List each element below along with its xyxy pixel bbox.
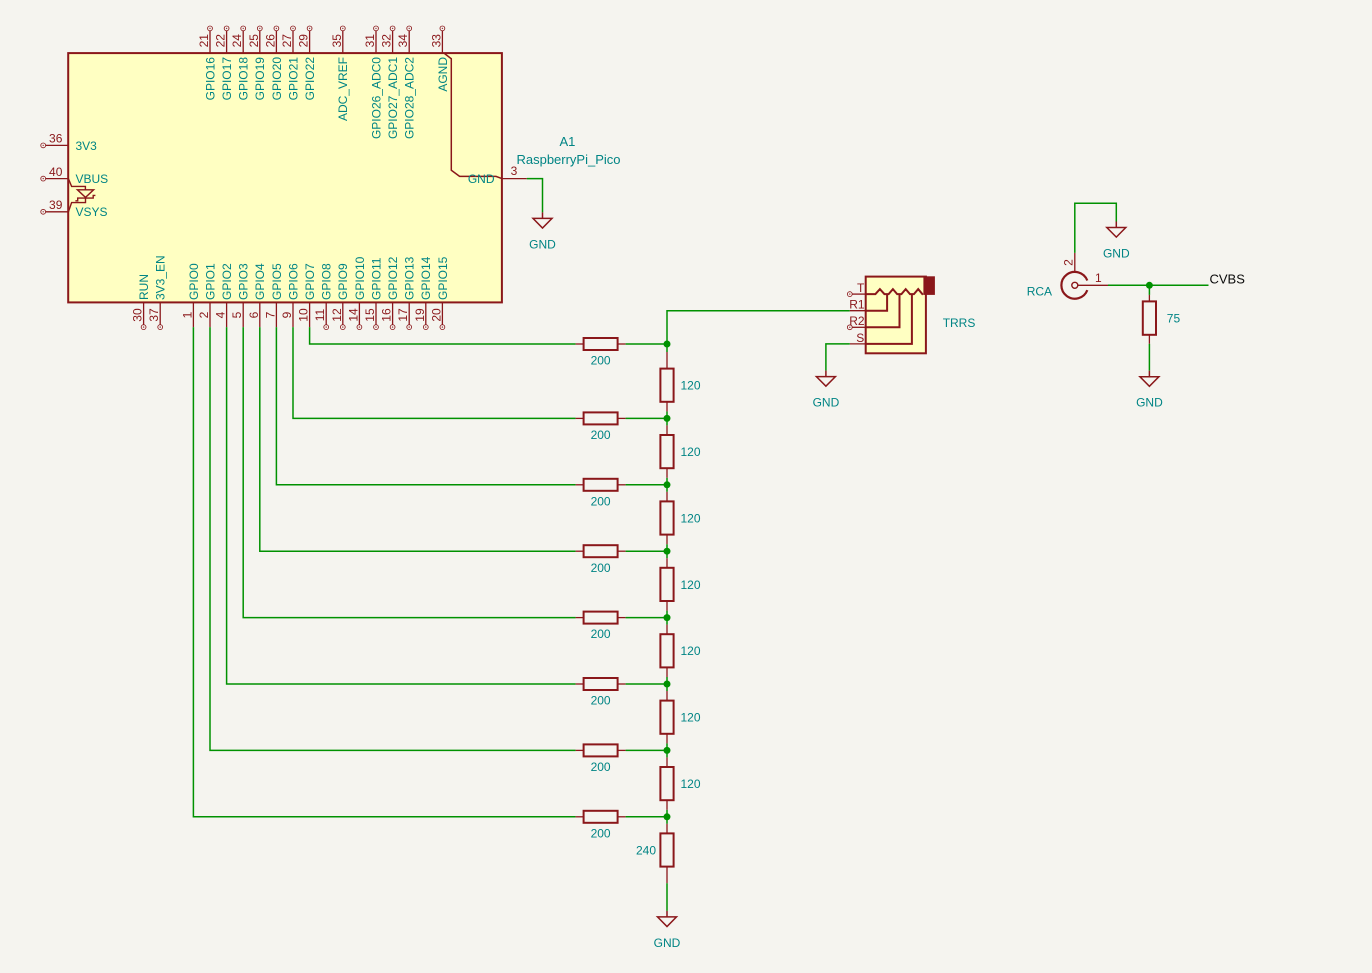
pin 26 GPIO20 (top) (263, 26, 283, 100)
svg-text:2: 2 (1062, 259, 1076, 266)
svg-text:34: 34 (396, 34, 410, 48)
junction ladder node 6 (664, 681, 671, 688)
resistor R 200 row4 (200) (576, 545, 626, 575)
TRRS R2 contact (866, 294, 900, 327)
RCA pin 1 signal (1078, 271, 1108, 285)
svg-text:5: 5 (230, 311, 244, 318)
svg-text:200: 200 (591, 354, 611, 368)
pin 24 GPIO18 (top) (230, 26, 250, 100)
wire RCA shield to GND (1075, 203, 1117, 253)
svg-text:GPIO16: GPIO16 (203, 57, 217, 101)
wire pico pin3 to GND (527, 179, 543, 213)
svg-text:GPIO22: GPIO22 (303, 57, 317, 101)
svg-text:GPIO11: GPIO11 (369, 257, 383, 300)
RCA pin 2 shield (1062, 253, 1076, 272)
svg-text:T: T (857, 281, 865, 295)
wire GPIO4 column to row 4 (260, 327, 576, 551)
TRRS sleeve block (923, 276, 935, 295)
svg-text:GPIO19: GPIO19 (253, 57, 267, 101)
svg-text:9: 9 (280, 311, 294, 318)
wire node1 to R120-1 (666, 344, 668, 352)
svg-text:12: 12 (330, 308, 344, 322)
svg-text:GPIO12: GPIO12 (386, 256, 400, 300)
A1 internal zener diode VBUS-VSYS (68, 179, 95, 212)
pin 31 GPIO26_ADC0 (top) (363, 26, 383, 139)
svg-text:GPIO15: GPIO15 (436, 256, 450, 300)
resistor R 200 row7 (200) (576, 744, 626, 774)
junction ladder node 7 (664, 747, 671, 754)
svg-text:GPIO20: GPIO20 (270, 57, 284, 101)
svg-text:GPIO7: GPIO7 (303, 263, 317, 300)
pin 34 GPIO28_ADC2 (top) (396, 26, 416, 139)
svg-text:RaspberryPi_Pico: RaspberryPi_Pico (516, 152, 620, 167)
wire TRRS S to GND (826, 344, 850, 371)
pin 21 GPIO16 (top) (197, 26, 217, 100)
svg-text:16: 16 (380, 308, 394, 322)
TRRS pin R2 (847, 314, 865, 329)
svg-text:VSYS: VSYS (76, 205, 108, 219)
MCU A1 RaspberryPi_Pico body (68, 53, 502, 302)
resistor R 200 row1 (200) (576, 338, 626, 368)
junction ladder node 1 (664, 341, 671, 348)
wire GPIO5 column to row 3 (276, 327, 575, 485)
svg-text:120: 120 (681, 711, 701, 725)
pin 22 GPIO17 (top) (214, 26, 234, 100)
svg-text:10: 10 (297, 308, 311, 322)
wire R240 to GND (666, 883, 668, 911)
resistor R 120 #1 (120) (660, 352, 700, 418)
svg-text:120: 120 (681, 578, 701, 592)
svg-text:GPIO10: GPIO10 (353, 256, 367, 300)
pin 9 GPIO6 (bottom) (280, 263, 300, 327)
svg-text:GPIO18: GPIO18 (237, 57, 251, 101)
svg-text:200: 200 (591, 561, 611, 575)
pin 17 GPIO13 (bottom) (396, 256, 416, 329)
pin 4 GPIO2 (bottom) (214, 263, 234, 327)
svg-text:37: 37 (147, 308, 161, 322)
pin 27 GPIO21 (top) (280, 26, 300, 100)
pin 15 GPIO11 (bottom) (363, 257, 383, 329)
wire GPIO2 column to row 6 (227, 327, 576, 684)
svg-text:200: 200 (591, 760, 611, 774)
svg-text:ADC_VREF: ADC_VREF (336, 57, 350, 121)
junction ladder node 5 (664, 614, 671, 621)
svg-text:GND: GND (468, 172, 495, 186)
pin 12 GPIO9 (bottom) (330, 263, 350, 330)
svg-text:20: 20 (429, 308, 443, 322)
svg-text:26: 26 (263, 34, 277, 48)
svg-text:GPIO17: GPIO17 (220, 57, 234, 101)
pin 11 GPIO8 (bottom) (313, 263, 333, 330)
wire row 2 to ladder node (626, 417, 667, 419)
svg-text:240: 240 (636, 843, 656, 857)
resistor R 240 (240) (636, 817, 674, 883)
svg-text:33: 33 (429, 34, 443, 48)
svg-text:RUN: RUN (137, 274, 151, 300)
svg-text:VBUS: VBUS (76, 172, 109, 186)
TRRS S contact (866, 294, 912, 344)
wire ladder node1 to TRRS R1 (667, 311, 850, 344)
svg-text:GND: GND (813, 396, 840, 410)
svg-text:19: 19 (413, 308, 427, 322)
svg-text:25: 25 (247, 34, 261, 48)
wire row 3 to ladder node (626, 484, 667, 486)
svg-text:GPIO9: GPIO9 (336, 263, 350, 300)
svg-text:CVBS: CVBS (1210, 272, 1246, 287)
junction ladder node 2 (664, 415, 671, 422)
svg-text:17: 17 (396, 308, 410, 322)
svg-text:14: 14 (346, 308, 360, 322)
resistor R 120 #2 (120) (660, 418, 700, 484)
svg-text:GPIO8: GPIO8 (320, 263, 334, 300)
pin 33 AGND (top) (429, 26, 449, 92)
svg-text:3V3_EN: 3V3_EN (154, 255, 168, 300)
svg-text:1: 1 (180, 311, 194, 318)
junction ladder node 8 (664, 813, 671, 820)
svg-text:GPIO2: GPIO2 (220, 263, 234, 300)
svg-text:200: 200 (591, 826, 611, 840)
svg-text:RCA: RCA (1027, 284, 1052, 298)
svg-text:200: 200 (591, 627, 611, 641)
wire GPIO6 column to row 2 (293, 327, 576, 418)
ground at pico pin3 (529, 212, 556, 251)
svg-text:TRRS: TRRS (943, 316, 976, 330)
resistor R 120 #5 (120) (660, 618, 700, 684)
svg-text:GPIO4: GPIO4 (253, 263, 267, 300)
svg-text:120: 120 (681, 777, 701, 791)
RCA center conductor circle (1072, 282, 1078, 288)
svg-text:120: 120 (681, 379, 701, 393)
svg-text:GPIO1: GPIO1 (203, 263, 217, 300)
pin 5 GPIO3 (bottom) (230, 263, 250, 327)
svg-text:22: 22 (214, 34, 228, 48)
wire row 5 to ladder node (626, 617, 667, 619)
pin 1 GPIO0 (bottom) (180, 263, 200, 327)
svg-text:11: 11 (313, 308, 327, 321)
svg-text:GPIO0: GPIO0 (187, 263, 201, 300)
svg-text:GPIO21: GPIO21 (286, 57, 300, 101)
svg-text:40: 40 (49, 165, 63, 179)
TRRS pin R1 (849, 298, 865, 312)
wire GPIO1 column to row 7 (210, 327, 576, 750)
svg-text:6: 6 (247, 311, 261, 318)
pin 40 VBUS (left) (41, 165, 108, 186)
svg-text:35: 35 (330, 34, 344, 48)
svg-text:31: 31 (363, 34, 377, 48)
svg-text:GPIO5: GPIO5 (270, 263, 284, 300)
svg-text:29: 29 (297, 34, 311, 48)
wire GPIO0 column to row 8 (193, 327, 575, 817)
resistor R 200 row2 (200) (576, 412, 626, 442)
svg-text:120: 120 (681, 644, 701, 658)
svg-text:15: 15 (363, 308, 377, 322)
svg-text:GND: GND (654, 936, 681, 950)
pin 32 GPIO27_ADC1 (top) (380, 26, 400, 139)
wire row 7 to ladder node (626, 749, 667, 751)
svg-text:GPIO28_ADC2: GPIO28_ADC2 (403, 57, 417, 139)
svg-text:R1: R1 (849, 298, 865, 312)
svg-text:GPIO26_ADC0: GPIO26_ADC0 (369, 57, 383, 139)
svg-text:75: 75 (1167, 312, 1181, 326)
junction CVBS node (1146, 282, 1153, 289)
pin 30 RUN (bottom) (131, 274, 151, 330)
resistor R 200 row5 (200) (576, 612, 626, 642)
ground at RCA shield (1103, 222, 1130, 261)
svg-text:200: 200 (591, 494, 611, 508)
svg-text:21: 21 (197, 34, 211, 48)
pin 2 GPIO1 (bottom) (197, 263, 217, 327)
svg-text:39: 39 (49, 198, 63, 212)
pin 10 GPIO7 (bottom) (297, 263, 317, 327)
svg-text:S: S (856, 331, 864, 345)
TRRS tip contact zigzag (866, 289, 923, 295)
pin 14 GPIO10 (bottom) (346, 256, 366, 329)
pin 36 3V3 (left) (41, 132, 97, 153)
ground at TRRS S (813, 371, 840, 410)
svg-text:120: 120 (681, 445, 701, 459)
svg-text:30: 30 (131, 308, 145, 322)
wire row 4 to ladder node (626, 550, 667, 552)
wire GPIO7 column to row 1 (310, 327, 576, 344)
resistor R 120 #4 (120) (660, 551, 700, 617)
TRRS R1 contact (866, 294, 887, 311)
svg-text:GPIO13: GPIO13 (403, 256, 417, 300)
svg-text:7: 7 (263, 311, 277, 318)
resistor R 120 #6 (120) (660, 684, 700, 750)
svg-text:AGND: AGND (436, 57, 450, 92)
TRRS pin S (850, 331, 866, 345)
pin 25 GPIO19 (top) (247, 26, 267, 100)
resistor R 120 #7 (120) (660, 750, 700, 816)
pin 16 GPIO12 (bottom) (380, 256, 400, 329)
ground at ladder bottom (654, 911, 681, 950)
wire RCA pin1 to CVBS label (1108, 284, 1209, 286)
pin 7 GPIO5 (bottom) (263, 263, 283, 327)
svg-text:3V3: 3V3 (76, 139, 98, 153)
pin 3 GND (right) (468, 164, 527, 186)
svg-text:1: 1 (1095, 271, 1102, 285)
pin 29 GPIO22 (top) (297, 26, 317, 100)
svg-text:32: 32 (380, 34, 394, 48)
ground at R75 (1136, 371, 1163, 410)
wire GPIO3 column to row 5 (243, 327, 575, 617)
resistor R 200 row6 (200) (576, 678, 626, 708)
junction ladder node 3 (664, 481, 671, 488)
pin 39 VSYS (left) (41, 198, 108, 219)
svg-text:GPIO27_ADC1: GPIO27_ADC1 (386, 57, 400, 139)
svg-text:24: 24 (230, 34, 244, 48)
connector J TRRS body (866, 277, 926, 354)
connector J RCA outer shield arc (1061, 272, 1087, 299)
resistor R 120 #3 (120) (660, 485, 700, 551)
pin 20 GPIO15 (bottom) (429, 256, 449, 329)
wire row 1 to ladder node (626, 343, 667, 345)
svg-text:R2: R2 (849, 314, 865, 328)
resistor R 200 row8 (200) (576, 811, 626, 841)
resistor R 75 (1143, 295, 1181, 344)
pin 37 3V3_EN (bottom) (147, 255, 167, 329)
resistor R 200 row3 (200) (576, 479, 626, 509)
svg-text:36: 36 (49, 132, 63, 146)
svg-text:27: 27 (280, 34, 294, 48)
svg-text:200: 200 (591, 428, 611, 442)
svg-text:GPIO14: GPIO14 (419, 256, 433, 300)
svg-text:GND: GND (1136, 396, 1163, 410)
TRRS pin T (847, 281, 865, 297)
svg-text:4: 4 (214, 311, 228, 318)
svg-text:GPIO3: GPIO3 (237, 263, 251, 300)
pin 19 GPIO14 (bottom) (413, 256, 433, 329)
wire R75 to GND (1148, 344, 1150, 371)
svg-text:GND: GND (1103, 247, 1130, 261)
svg-text:GPIO6: GPIO6 (286, 263, 300, 300)
svg-text:2: 2 (197, 311, 211, 318)
wire CVBS node to R75 (1148, 285, 1150, 295)
pin 35 ADC_VREF (top) (330, 26, 350, 121)
svg-text:A1: A1 (559, 134, 575, 149)
wire row 8 to ladder node (626, 816, 667, 818)
pin 6 GPIO4 (bottom) (247, 263, 267, 327)
svg-text:GND: GND (529, 237, 556, 251)
junction ladder node 4 (664, 548, 671, 555)
svg-text:120: 120 (681, 511, 701, 525)
svg-text:200: 200 (591, 694, 611, 708)
A1 internal AGND-GND polyline (445, 54, 502, 179)
wire row 6 to ladder node (626, 683, 667, 685)
